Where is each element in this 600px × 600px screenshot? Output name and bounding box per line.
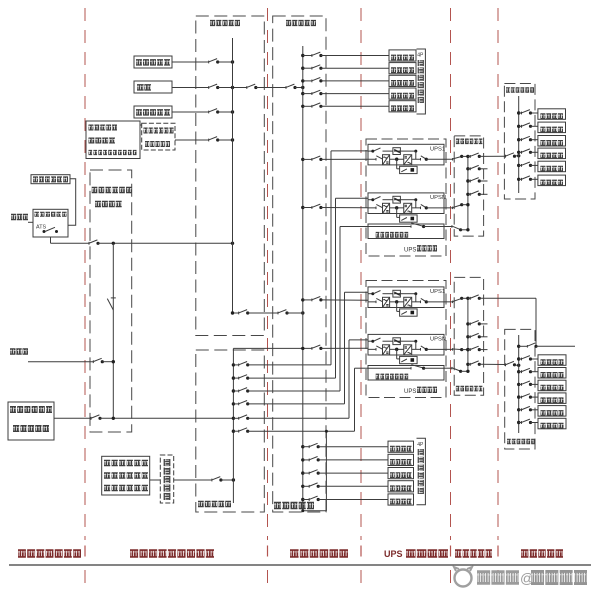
dashed box 输出分配电柜 group1	[504, 84, 535, 200]
load box 非重要负载	[134, 106, 172, 118]
bus 低压配电柜 bottom vertical	[232, 348, 234, 503]
isolator switch on riser x113	[107, 299, 113, 310]
label 输出分配电柜 group1	[506, 87, 534, 93]
load box 应急照明 (group1)	[538, 161, 566, 172]
filter 谐波滤波柜 dashed box vertical	[160, 455, 173, 503]
wire 市电2 input	[28, 361, 93, 363]
UPSN main line input breaker	[368, 207, 376, 209]
red zone separator line 2 (低压配电 | 机房输入配电)	[267, 8, 269, 540]
bus 输出分配电柜 group1	[518, 96, 520, 193]
UPS1 battery branch	[396, 159, 398, 169]
spare breaker 输出总配电柜2	[466, 322, 469, 325]
label 输入配电柜 bottom	[274, 502, 314, 510]
spare breaker 输出总配电柜2	[466, 335, 469, 338]
watermark text 头条号@制冷社区	[477, 570, 519, 585]
load box 其他用电 (bottom)	[388, 494, 414, 505]
UPS1 inverter	[404, 297, 412, 307]
breaker trunk2 no.2	[277, 312, 279, 315]
UPS unit UPS1 box	[368, 287, 444, 308]
branch feed to 输出分配电柜2	[466, 363, 469, 366]
bus 低压配电柜 top vertical	[232, 38, 234, 313]
spare breaker 输出总配电柜1	[466, 179, 469, 182]
branch feed to 输出分配电柜1	[468, 155, 470, 157]
breaker on ATS trunk	[88, 242, 90, 245]
load box 外设用电 (group2)	[538, 368, 566, 379]
filter 并联型抗谐振滤波抑制器 box	[8, 402, 54, 440]
legend label 输出总配电	[455, 549, 492, 558]
riser wire manual bypass cabinet group1 feed	[339, 227, 341, 392]
red zone separator line 3 (机房输入配电 | UPS电源系统)	[360, 8, 362, 540]
wire ATS output down	[50, 237, 52, 243]
branch UPS1 group2 rectifier feed	[301, 298, 304, 301]
branch breaker to load 照明系统 (bottom)	[301, 458, 304, 461]
red zone separator line 5 (输出总配电 | 输出分配电)	[497, 8, 499, 540]
spare breaker 输出总配电柜1	[466, 193, 469, 196]
UPSN bypass line + static switch	[368, 340, 374, 342]
info box 广播/卫星/微波通信环境	[86, 121, 140, 159]
wire bypass group1 output to bus bottom	[444, 226, 452, 228]
riser wire UPSN group1 bypass feed	[335, 198, 337, 378]
riser wire to 分配电柜2 top	[535, 298, 537, 346]
svg-text:UPS: UPS	[404, 389, 416, 395]
branch breaker to 保安系统 (group1)	[517, 178, 520, 181]
UPS1 inverter	[404, 155, 412, 165]
UPS unit UPSN box	[368, 334, 444, 355]
UPS1 DC bus node	[395, 300, 398, 303]
UPS1 rectifier	[383, 297, 390, 307]
wire 谐波滤波柜 branch to bus	[174, 479, 212, 481]
load box 其他用电 (top)	[389, 101, 416, 112]
branch breaker to 监控系统 (group1)	[517, 151, 520, 154]
branch breaker to 主机用电 (group2)	[517, 357, 520, 360]
wire trunk ATS to 低压配电柜 bus (y243)	[51, 242, 90, 244]
branch breaker to load 空调系统 (top)	[301, 54, 304, 57]
riser wire UPS1 group1 bypass feed	[330, 151, 332, 365]
wire trunk3 to 低压配电柜2 bus	[100, 417, 233, 419]
branch UPSN group1 rectifier feed	[301, 206, 304, 209]
bus 输出总配电柜 group1	[467, 156, 469, 229]
svg-text:UPS: UPS	[404, 248, 416, 254]
node 市电1 label	[11, 214, 28, 221]
wire UPSN group2 output to 输出总配电柜2	[444, 348, 453, 350]
breaker feed into 分配电柜2	[505, 363, 507, 366]
wire tie lower trunk2 y313	[233, 312, 239, 314]
dashed box UPS并机系统 group2	[366, 281, 446, 398]
load box 风机系统 (top)	[389, 88, 416, 99]
load box 空调及水泵	[134, 56, 172, 68]
load box 监控系统 (group2)	[538, 393, 566, 404]
ATS 自动转换开关	[33, 209, 68, 237]
load box 空调系统 (bottom)	[388, 441, 414, 452]
load box 应急照明 (group2)	[538, 406, 566, 417]
branch breaker to 监控系统 (group2)	[517, 395, 520, 398]
label 输入配电柜 top	[286, 20, 316, 26]
UPS unit UPSN box	[368, 193, 444, 214]
svg-text:4P: 4P	[417, 442, 424, 448]
branch breaker to 保安系统 (group2)	[517, 421, 520, 424]
watermark logo cat icon	[455, 570, 472, 587]
generator 柴油发电机组	[31, 175, 70, 184]
wire 串联滤波 branch	[175, 139, 209, 141]
wire 空调及水泵 branch	[172, 61, 209, 63]
dashed box 输入配电柜	[273, 16, 326, 512]
branch breaker to load 风机系统 (bottom)	[301, 485, 304, 488]
svg-text:UPSN: UPSN	[430, 195, 446, 201]
UPSN output breaker inside	[412, 348, 421, 350]
breaker on 市电2 input	[92, 360, 94, 363]
branch breaker to 主机用电 (group1)	[517, 111, 520, 114]
bus 输入配电柜 vertical	[302, 46, 304, 511]
branch breaker to 终端用电 (group1)	[517, 138, 520, 141]
branch breaker to load 维修系统 (top)	[301, 79, 304, 82]
wire UPSN group1 output to 输出总配电柜1	[444, 207, 453, 209]
load box 外设用电 (group1)	[538, 122, 566, 133]
dashed box 输出总配电柜 group1	[454, 136, 483, 236]
wire 非重要负载 branch	[172, 111, 209, 113]
label 输出总配电柜 group1	[456, 139, 483, 145]
load box 终端用电 (group2)	[538, 380, 566, 391]
load box 终端用电 (group1)	[538, 136, 566, 147]
UPS1 bypass line + static switch	[368, 150, 374, 152]
bracket 机房辅助用电 top	[417, 49, 426, 114]
branch breaker to 外设用电 (group1)	[517, 125, 520, 128]
branch 总配电柜2 top feed to 分配电柜2 riser	[468, 297, 470, 299]
UPS unit UPS1 box	[368, 144, 444, 165]
branch breaker to 应急照明 (group2)	[517, 408, 520, 411]
load box 照明系统 (top)	[389, 63, 416, 74]
label 输出总配电柜 group2	[456, 386, 483, 392]
legend label 机房输入配电	[290, 549, 348, 558]
wire 广播 box connector	[140, 124, 142, 126]
breaker feed into 分配电柜1	[505, 155, 507, 158]
label 低压配电柜 bottom	[198, 501, 231, 508]
dashed box 输出分配电柜 group2	[505, 329, 535, 449]
load box 主机用电 (group1)	[538, 109, 566, 120]
load box 监控系统 (group1)	[538, 148, 566, 159]
legend baseline	[9, 564, 591, 566]
branch breaker to 应急照明 (group1)	[517, 164, 520, 167]
wire 低压配电柜2 top tie to 输入配电柜 bus and UPSN group2 feed	[233, 347, 312, 349]
wire generator to ATS	[68, 179, 76, 226]
UPSN rectifier	[383, 345, 390, 355]
load box 保安系统 (group1)	[538, 175, 566, 186]
UPS1 DC bus node	[395, 158, 398, 161]
svg-text:4P: 4P	[417, 53, 424, 59]
UPSN inverter	[404, 203, 412, 213]
wire 市电1 to ATS	[28, 221, 33, 223]
svg-text:UPSN: UPSN	[430, 337, 446, 343]
breaker on filter wire	[90, 417, 92, 420]
label 低压配电系统	[92, 187, 132, 194]
spare breaker 输出总配电柜1	[466, 167, 469, 170]
label 输出分配电柜 group2	[507, 439, 535, 445]
UPSN inverter	[404, 345, 412, 355]
branch breaker UPSN group2 bypass feed	[232, 417, 235, 420]
dashed box 低压配电柜 bottom	[196, 350, 264, 512]
UPSN DC bus node	[395, 348, 398, 351]
node junction trunk / riser x113	[112, 242, 115, 245]
svg-text:UPS1: UPS1	[430, 147, 445, 153]
UPSN battery branch	[396, 208, 398, 218]
UPSN rectifier	[383, 203, 390, 213]
breaker tie upper 1	[246, 86, 248, 89]
node 市电2 label	[10, 348, 28, 355]
load box 维修系统 (bottom)	[388, 468, 414, 479]
branch breaker to 外设用电 (group2)	[517, 370, 520, 373]
load box 照明	[134, 81, 172, 93]
dashed box UPS并机系统 group1	[366, 139, 446, 256]
manual bypass cabinet 手动维修旁路柜 group2	[368, 366, 444, 381]
UPS1 output breaker inside	[412, 301, 421, 303]
wire riser x113 lower segment	[112, 310, 114, 418]
dashed box 输出总配电柜 group2	[454, 277, 483, 395]
wire UPS1 group1 output to 输出总配电柜1	[444, 158, 453, 160]
manual bypass cabinet 手动维修旁路柜 group1	[368, 224, 444, 239]
branch breaker manual bypass cabinet group2 feed	[232, 430, 235, 433]
load box 空调系统 (top)	[389, 50, 416, 61]
legend label 电网和油机输入	[18, 549, 81, 558]
branch breaker to load 风机系统 (top)	[301, 92, 304, 95]
riser wire UPSN group2 bypass feed	[348, 340, 350, 418]
wire 输入配电柜 bus bottom hook	[303, 431, 327, 511]
svg-text:ATS: ATS	[36, 225, 46, 231]
bus 输出分配电柜 group2	[518, 335, 520, 433]
UPS1 output breaker inside	[412, 158, 421, 160]
wire 电弧焊 to 谐波滤波柜	[150, 479, 161, 481]
branch breaker to load 照明系统 (top)	[301, 67, 304, 70]
branch 分配电柜2 top outgoing feeder	[517, 345, 520, 348]
branch breaker UPS1 group1 bypass feed	[232, 363, 235, 366]
riser wire UPS1 group2 bypass feed	[344, 292, 346, 404]
branch breaker to load 维修系统 (bottom)	[301, 471, 304, 474]
harmonic load box 电弧焊核磁共振仪等产生高频谐波的负载	[102, 456, 150, 495]
UPSN battery branch	[396, 349, 398, 359]
wire UPS1 group2 output to 输出总配电柜2	[444, 301, 453, 303]
label 切换装置	[95, 201, 122, 208]
red zone separator line 4 (UPS电源系统 | 输出总配电)	[450, 8, 452, 540]
wire bypass group2 output to bus bottom	[444, 367, 452, 369]
dashed box 低压配电系统切换装置	[90, 170, 132, 432]
spare breaker 输出总配电柜2	[466, 348, 469, 351]
branch breaker to load 其他用电 (bottom)	[301, 498, 304, 501]
svg-text:UPS: UPS	[384, 549, 403, 559]
label 低压配电柜 top	[210, 20, 240, 26]
breaker trunk2 no.1	[238, 312, 240, 315]
load box 照明系统 (bottom)	[388, 454, 414, 465]
node junction 市电2 / riser	[112, 360, 115, 363]
branch breaker UPSN group1 bypass feed	[232, 376, 235, 379]
UPSN DC bus node	[395, 206, 398, 209]
load box 保安系统 (group2)	[538, 418, 566, 429]
UPS1 bypass line + static switch	[368, 293, 374, 295]
UPS1 main line input breaker	[368, 158, 376, 160]
wire riser x113 upper segment	[112, 243, 114, 310]
load box 维修系统 (top)	[389, 75, 416, 86]
UPS1 rectifier	[383, 155, 390, 165]
red zone separator line 1 (电网和油机输入 | 电源切换)	[84, 8, 86, 540]
branch breaker UPS1 group2 bypass feed	[232, 402, 235, 405]
node b6 hook junction	[325, 430, 328, 433]
branch breaker manual bypass cabinet group1 feed	[232, 389, 235, 392]
UPS1 battery branch	[396, 302, 398, 312]
riser wire manual bypass cabinet group2 feed	[354, 368, 356, 431]
UPSN output breaker inside	[412, 207, 421, 209]
bracket 机房辅助用电 bottom	[417, 438, 426, 504]
load box 风机系统 (bottom)	[388, 481, 414, 492]
wire 照明 branch / bus tie upper	[172, 87, 209, 89]
legend label 电源切换和低压配电	[130, 549, 214, 558]
UPS1 main line input breaker	[368, 301, 376, 303]
bus 输出总配电柜 group2	[467, 298, 469, 371]
wire filter to trunk	[54, 417, 91, 419]
dashed box 低压配电柜 top	[196, 16, 264, 336]
branch breaker to load 其他用电 (top)	[301, 105, 304, 108]
load box 主机用电 (group2)	[538, 355, 566, 366]
UPSN bypass line + static switch	[368, 199, 374, 201]
branch UPS1 group1 rectifier feed	[301, 158, 304, 161]
legend label 输出分配电	[521, 549, 563, 558]
filter 串联型抗谐振滤波抑制器 dashed box	[142, 123, 175, 150]
breaker tie upper 2	[285, 86, 287, 89]
branch breaker to load 空调系统 (bottom)	[301, 445, 304, 448]
UPSN main line input breaker	[368, 348, 376, 350]
branch breaker to 终端用电 (group2)	[517, 383, 520, 386]
svg-text:UPS1: UPS1	[430, 289, 445, 295]
